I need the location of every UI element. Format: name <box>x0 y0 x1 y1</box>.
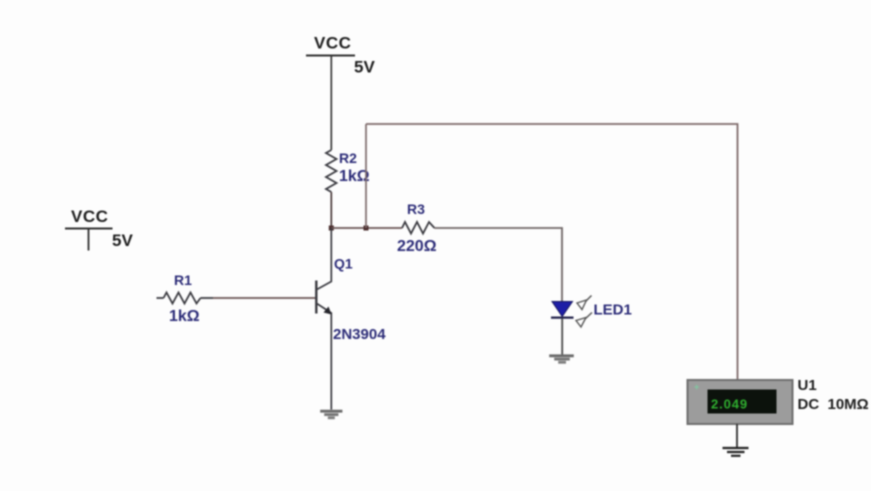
svg-text:+: + <box>694 382 699 392</box>
svg-text:Q1: Q1 <box>334 256 353 272</box>
svg-text:U1: U1 <box>798 377 817 394</box>
svg-text:LED1: LED1 <box>594 302 632 319</box>
wire R1 to Q1 base <box>213 297 316 299</box>
resistor R1 <box>157 272 214 325</box>
wire junction B up <box>365 124 367 228</box>
wire U1 to ground <box>736 424 738 448</box>
ground (emitter) <box>320 411 342 418</box>
wire VCC-top to R2 <box>330 57 332 151</box>
svg-text:VCC: VCC <box>71 207 108 226</box>
wire top horizontal to multimeter <box>366 124 738 380</box>
svg-text:2.049: 2.049 <box>711 397 748 412</box>
svg-text:2N3904: 2N3904 <box>333 326 386 343</box>
resistor R2 <box>326 150 370 192</box>
ground (meter) <box>723 448 749 456</box>
wire LED1 to ground <box>561 319 563 356</box>
power VCC (top) <box>306 34 375 77</box>
wire junction A to R3 <box>331 227 402 229</box>
node junction A <box>329 226 334 231</box>
node junction B <box>364 226 369 231</box>
svg-text:R2: R2 <box>339 150 357 166</box>
power VCC (left) <box>65 207 133 251</box>
transistor Q1 <box>316 228 386 410</box>
resistor R3 <box>397 201 437 255</box>
wire R3 to LED1 <box>435 228 563 301</box>
svg-text:VCC: VCC <box>314 34 351 53</box>
svg-text:5V: 5V <box>354 58 375 77</box>
svg-text:R1: R1 <box>174 272 192 288</box>
svg-text:1kΩ: 1kΩ <box>169 308 200 325</box>
ground (LED) <box>549 356 574 363</box>
multimeter U1 <box>688 377 869 424</box>
wire R2 bottom to junction <box>330 192 332 228</box>
svg-text:R3: R3 <box>407 201 425 217</box>
LED LED1 <box>551 296 632 328</box>
svg-text:5V: 5V <box>112 231 133 250</box>
svg-text:DC 10MΩ: DC 10MΩ <box>798 396 869 413</box>
svg-text:220Ω: 220Ω <box>397 238 437 255</box>
